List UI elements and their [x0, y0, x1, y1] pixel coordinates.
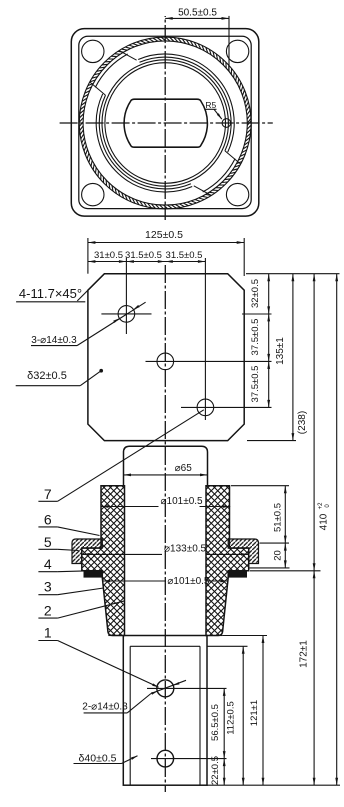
svg-text:31.5±0.5: 31.5±0.5 — [125, 250, 162, 261]
svg-text:⌀101±0.5: ⌀101±0.5 — [161, 496, 204, 507]
svg-text:31±0.5: 31±0.5 — [94, 250, 123, 261]
svg-text:4-11.7×45°: 4-11.7×45° — [19, 286, 82, 301]
svg-text:410: 410 — [319, 513, 330, 530]
svg-text:32±0.5: 32±0.5 — [250, 279, 261, 308]
svg-text:112±0.5: 112±0.5 — [226, 701, 237, 735]
svg-text:172±1: 172±1 — [299, 640, 310, 668]
svg-text:121±1: 121±1 — [249, 700, 260, 726]
svg-text:⌀133±0.5: ⌀133±0.5 — [164, 544, 207, 555]
svg-text:(238): (238) — [297, 411, 308, 434]
svg-text:56.5±0.5: 56.5±0.5 — [210, 704, 221, 741]
svg-text:δ40±0.5: δ40±0.5 — [79, 753, 117, 765]
svg-text:6: 6 — [44, 512, 52, 528]
svg-text:4: 4 — [44, 556, 52, 572]
svg-text:R5: R5 — [205, 100, 216, 110]
svg-text:22±0.5: 22±0.5 — [210, 756, 221, 785]
svg-text:31.5±0.5: 31.5±0.5 — [166, 250, 203, 261]
svg-text:3-⌀14±0.3: 3-⌀14±0.3 — [31, 335, 77, 346]
svg-text:135±1: 135±1 — [275, 337, 286, 365]
svg-text:7: 7 — [44, 486, 52, 502]
svg-text:1: 1 — [44, 625, 52, 641]
svg-text:125±0.5: 125±0.5 — [145, 229, 183, 241]
svg-text:50.5±0.5: 50.5±0.5 — [178, 8, 217, 19]
svg-text:+2: +2 — [318, 502, 324, 510]
svg-text:⌀101±0.5: ⌀101±0.5 — [167, 576, 210, 587]
svg-text:⌀65: ⌀65 — [175, 463, 193, 474]
svg-text:2-⌀14±0.3: 2-⌀14±0.3 — [82, 702, 128, 713]
svg-text:51±0.5: 51±0.5 — [273, 503, 284, 532]
svg-text:37.5±0.5: 37.5±0.5 — [250, 319, 261, 356]
svg-text:2: 2 — [44, 603, 52, 619]
svg-text:3: 3 — [44, 579, 52, 595]
svg-text:δ32±0.5: δ32±0.5 — [27, 370, 67, 382]
svg-text:5: 5 — [44, 534, 52, 550]
svg-text:20: 20 — [273, 550, 284, 561]
svg-text:37.5±0.5: 37.5±0.5 — [250, 366, 261, 403]
